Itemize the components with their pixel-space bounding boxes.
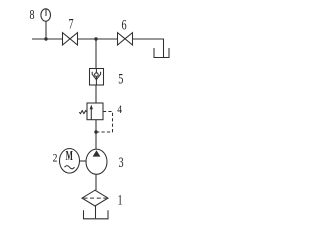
node: junction gauge/header (44, 37, 47, 40)
wire: header pipe left segment (32, 38, 62, 40)
wire: spine from box 4 to pump (95, 120, 97, 150)
svg-text:M: M (66, 149, 73, 164)
motor M2 (circle with M~) (60, 149, 80, 174)
check valve U5 (box) (90, 69, 104, 86)
wire: header pipe right segment down to tank (133, 39, 164, 57)
svg-text:5: 5 (118, 71, 123, 87)
label 3 (118, 154, 123, 170)
tank (top right reservoir) (154, 48, 169, 58)
wire: spine from pump to filter (95, 174, 97, 190)
svg-text:7: 7 (68, 15, 74, 31)
svg-text:3: 3 (118, 154, 123, 170)
label 5 (118, 71, 123, 87)
svg-text:6: 6 (121, 16, 127, 32)
wire: spine from header to check valve box (95, 39, 97, 69)
valve 7 (shut-off valve bowtie) (63, 33, 78, 45)
label 7 (68, 15, 74, 31)
tank (bottom reservoir) (84, 210, 109, 219)
pump P3 (circle with outlet triangle) (86, 149, 107, 174)
wire: spine between box 5 and box 4 (95, 85, 97, 103)
svg-text:1: 1 (117, 192, 122, 208)
node: junction pilot/spine (94, 130, 97, 133)
valve 6 (shut-off valve bowtie) (118, 33, 133, 45)
label 1 (117, 192, 122, 208)
svg-text:4: 4 (117, 103, 122, 116)
node: junction header/main spine (94, 37, 97, 40)
label 6 (121, 16, 127, 32)
wire: gauge stem (45, 21, 47, 39)
filter F1 (diamond with dashed element) (82, 190, 108, 206)
wire: header pipe middle segment (78, 38, 118, 40)
label 8 (29, 6, 34, 22)
wire: motor-pump shaft (80, 160, 87, 162)
label 2 (53, 151, 58, 164)
svg-text:2: 2 (53, 151, 58, 164)
svg-text:8: 8 (29, 6, 34, 22)
relief valve U4 (box) (79, 103, 103, 120)
wire: filter to tank (95, 206, 97, 218)
wire: pilot line (dashed) (97, 112, 113, 133)
pressure gauge 8 (41, 9, 51, 21)
label 4 (117, 103, 122, 116)
